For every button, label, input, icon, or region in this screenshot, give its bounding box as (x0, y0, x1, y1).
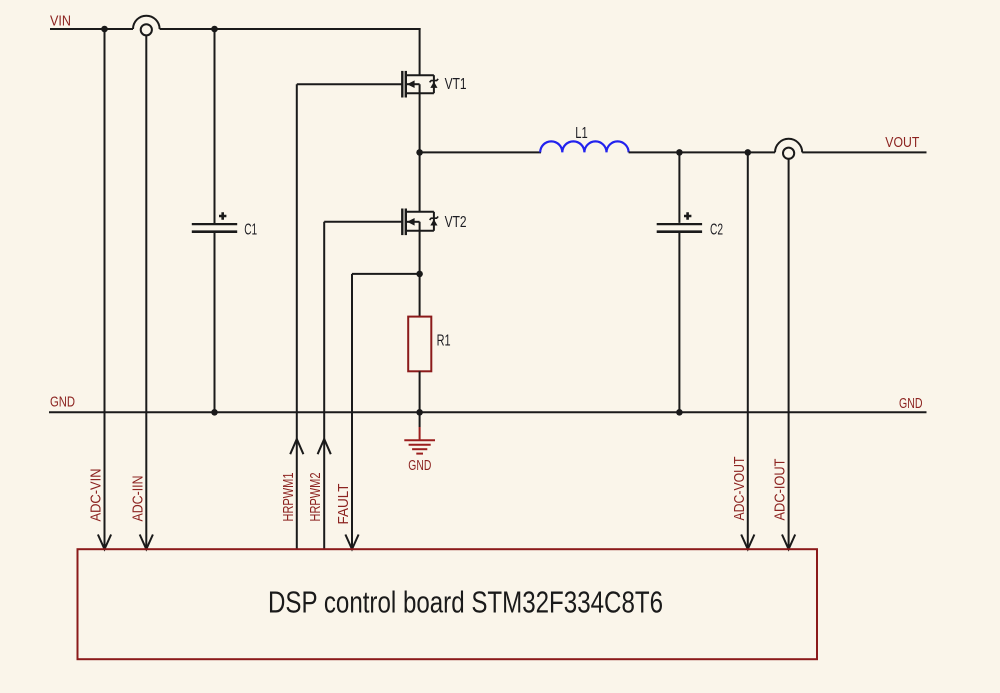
arrow down ADC-VIN (98, 535, 111, 550)
wire VOUT rail (802, 151, 926, 153)
svg-text:ADC-VIN: ADC-VIN (88, 469, 105, 522)
svg-text:VT2: VT2 (445, 214, 467, 231)
wire switch node to L1 (420, 151, 541, 153)
wire ground stub (419, 412, 421, 427)
capacitor C1 plus sign (219, 212, 226, 219)
capacitor C2 plus sign (684, 212, 691, 219)
current sensor coil circle (output) (783, 148, 794, 159)
capacitor C2 bottom lead (678, 233, 680, 412)
svg-text:FAULT: FAULT (335, 484, 352, 525)
resistor R1 (408, 317, 431, 372)
inductor L1 (540, 141, 628, 152)
svg-text:C2: C2 (710, 221, 723, 238)
wire ADC-IIN vertical (145, 35, 147, 548)
capacitor C1 bottom lead (214, 233, 216, 412)
transistor VT1 (high-side MOSFET) (402, 71, 438, 98)
wire VIN rail right (160, 28, 421, 30)
wire HRPWM1 vertical (296, 84, 298, 548)
transistor VT2 (low-side MOSFET) (402, 209, 438, 236)
svg-text:VIN: VIN (50, 13, 71, 30)
capacitor C1 plates (192, 223, 237, 225)
wire HRPWM2 vertical (323, 222, 325, 549)
ground symbol (404, 427, 435, 454)
capacitor C1 top lead (214, 29, 216, 223)
wire VT2 gate lead (324, 221, 402, 223)
junction node R1/GND (416, 409, 423, 416)
wire VT1 drain (419, 28, 421, 75)
arrow down ADC-VOUT (741, 535, 754, 550)
wire R1 bottom lead (419, 371, 421, 412)
wire GND rail (49, 411, 927, 413)
svg-text:GND: GND (408, 457, 431, 474)
junction node C1/GND (211, 409, 218, 416)
capacitor C2 top lead (678, 152, 680, 223)
wire ADC-VIN vertical (104, 29, 106, 549)
wire VT1 source to VT2 drain (419, 84, 421, 212)
capacitor C2 plates (657, 223, 702, 225)
wire L1 to output hop (629, 151, 775, 153)
svg-text:DSP control board STM32F334C8T: DSP control board STM32F334C8T6 (268, 586, 663, 620)
DSP control board box (78, 549, 818, 659)
svg-text:VT1: VT1 (445, 76, 467, 93)
wire VT1 gate lead (297, 83, 403, 85)
arrow up HRPWM2 (318, 439, 331, 454)
svg-text:R1: R1 (437, 333, 451, 350)
junction node ADC-VOUT tap (745, 149, 752, 156)
junction node C2/GND (676, 409, 683, 416)
junction node FAULT tap (416, 271, 423, 278)
svg-text:HRPWM2: HRPWM2 (307, 473, 324, 522)
svg-text:GND: GND (50, 394, 75, 411)
wire ADC-VOUT vertical (747, 152, 749, 548)
junction node VIN / ADC-VIN (101, 26, 108, 33)
junction node C2 tap (676, 149, 683, 156)
current sensor hop arc (input) (133, 16, 160, 29)
wire ADC-IOUT vertical (788, 159, 790, 549)
wire VIN rail left (50, 28, 133, 30)
arrow up HRPWM1 (290, 439, 303, 454)
current sensor hop arc (output) (775, 139, 802, 153)
svg-text:ADC-VOUT: ADC-VOUT (731, 457, 748, 521)
svg-text:L1: L1 (575, 125, 588, 142)
svg-text:HRPWM1: HRPWM1 (280, 473, 297, 522)
svg-text:ADC-IIN: ADC-IIN (129, 476, 146, 522)
arrow down FAULT (345, 535, 358, 550)
wire VT2 source down to R1 (419, 222, 421, 317)
junction node switch node (416, 149, 423, 156)
svg-text:VOUT: VOUT (885, 134, 919, 151)
svg-text:ADC-IOUT: ADC-IOUT (772, 459, 789, 521)
wire FAULT vertical (351, 274, 353, 549)
arrow down ADC-IIN (140, 535, 153, 550)
svg-text:GND: GND (899, 395, 923, 412)
junction node VIN / C1 (211, 26, 218, 33)
wire FAULT horizontal (352, 273, 420, 275)
current sensor coil circle (input) (141, 24, 152, 35)
svg-text:C1: C1 (244, 221, 257, 238)
arrow down ADC-IOUT (782, 535, 795, 550)
